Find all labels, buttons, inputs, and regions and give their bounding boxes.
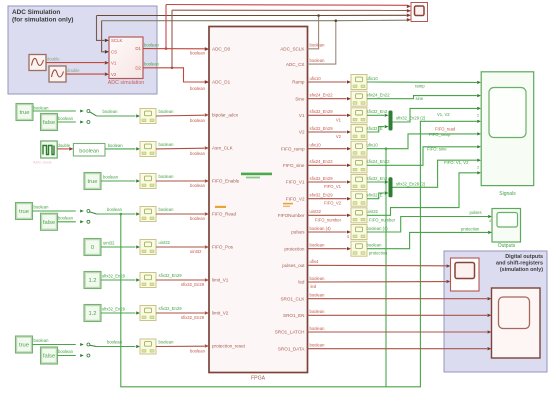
svg-text:sine: sine — [416, 96, 424, 101]
svg-text:boolean: boolean — [79, 148, 99, 154]
svg-text:V1: V1 — [336, 117, 342, 122]
constant true (row FIFO_Read) — [16, 203, 33, 220]
svg-text:ADC Simulation: ADC Simulation — [12, 9, 60, 16]
wire rate transition to FIFO_Pos — [156, 246, 205, 248]
rate transition right column (y=215.3) — [351, 208, 367, 223]
wire protection to Outputs — [367, 232, 488, 248]
svg-text:boolean: boolean — [103, 109, 119, 114]
svg-text:sfix24_En22: sfix24_En22 — [310, 159, 334, 164]
svg-text:boolean: boolean — [58, 216, 74, 221]
wire FPGA to rate transition (y=148.7) — [308, 148, 347, 150]
svg-text:D1: D1 — [135, 46, 141, 51]
wire true to switch — [33, 344, 76, 346]
svg-text:boolean: boolean — [310, 58, 326, 63]
svg-text:boolean: boolean — [190, 349, 206, 354]
svg-text:led: led — [311, 284, 317, 289]
rate transition right column (y=82) — [351, 75, 367, 90]
area box Digital outputs and shift-registers — [444, 251, 547, 372]
svg-text:Digital outputs: Digital outputs — [505, 254, 543, 260]
wire FPGA to rate transition (y=132) — [308, 131, 347, 133]
svg-text:uint32: uint32 — [103, 241, 115, 246]
wire FPGA to rate transition (y=198.7) — [308, 198, 347, 200]
svg-text:protection_reset: protection_reset — [212, 344, 246, 349]
constant true (row protection_reset) — [16, 336, 33, 353]
svg-text:boolean: boolean — [107, 207, 123, 212]
svg-text:ADC clock: ADC clock — [33, 160, 52, 165]
svg-text:FIFO_V1: FIFO_V1 — [286, 180, 305, 185]
svg-text:FIFO: V1, V2: FIFO: V1, V2 — [444, 160, 469, 165]
svg-text:boolean (4): boolean (4) — [367, 226, 389, 231]
wire 1.2 to rate transition — [101, 279, 135, 281]
svg-text:boolean: boolean — [159, 109, 175, 114]
wire switch to rate transition — [97, 115, 136, 117]
wire D2 branch to scope — [171, 67, 174, 70]
rate transition (row FIFO_Pos) — [140, 240, 156, 255]
wire FIFO_number to Signals — [367, 173, 477, 216]
constant 0 — [84, 239, 101, 256]
svg-text:boolean: boolean — [310, 326, 326, 331]
rate transition (row limit_V1) — [140, 273, 156, 288]
svg-text:ADC simulation: ADC simulation — [108, 80, 145, 86]
svg-text:V1, V2: V1, V2 — [437, 112, 450, 117]
wire SRO1_EN to shift register block — [308, 314, 488, 316]
svg-text:led: led — [298, 280, 305, 285]
wire SRO1_LATCH to shift register block — [308, 331, 488, 333]
svg-text:ufix10: ufix10 — [367, 143, 379, 148]
svg-text:FIFO_V1: FIFO_V1 — [324, 184, 342, 189]
svg-text:false: false — [43, 220, 55, 226]
svg-text:boolean: boolean — [34, 105, 50, 110]
wire D1 to ADC_D0 — [143, 48, 205, 50]
svg-text:uint32: uint32 — [159, 240, 171, 245]
svg-text:sfix32_En29: sfix32_En29 — [102, 307, 126, 312]
svg-text:boolean: boolean — [159, 340, 175, 345]
svg-text:FIFO_Read: FIFO_Read — [212, 212, 236, 217]
svg-text:boolean: boolean — [190, 151, 206, 156]
svg-text:boolean: boolean — [310, 309, 326, 314]
svg-text:2: 2 — [477, 114, 479, 118]
manual switch (row protection_reset) — [80, 343, 84, 346]
svg-text:boolean: boolean — [103, 175, 119, 180]
wire FIFO_sine to Signals — [367, 147, 477, 166]
svg-text:boolean (4): boolean (4) — [310, 226, 332, 231]
svg-text:bipolar_adcx: bipolar_adcx — [212, 113, 239, 118]
wire conversion to rate transition — [105, 148, 135, 150]
wire sine to Signals — [367, 96, 477, 99]
svg-text:boolean: boolean — [58, 116, 74, 121]
svg-text:sfix32_En29: sfix32_En29 — [310, 126, 334, 131]
svg-text:sfix32_En29: sfix32_En29 — [310, 193, 334, 198]
wire rate transition to limit_V2 — [156, 312, 205, 314]
svg-text:sfix32_En2: sfix32_En2 — [367, 109, 388, 114]
rate transition (row bipolar) — [140, 109, 156, 124]
svg-text:boolean: boolean — [159, 142, 175, 147]
wire mux to Signals V1 V2 — [393, 108, 477, 122]
svg-text:Asm_CLK: Asm_CLK — [212, 146, 234, 151]
svg-text:1.2: 1.2 — [88, 278, 96, 284]
rate transition (row protection_reset) — [140, 339, 156, 354]
svg-text:FIFO_read: FIFO_read — [435, 127, 456, 132]
svg-text:V1: V1 — [299, 113, 305, 118]
svg-text:FIFO_Enable: FIFO_Enable — [212, 179, 240, 184]
scope Signals — [481, 72, 534, 186]
wire switch to rate transition — [97, 346, 136, 348]
wire led to scope — [308, 281, 447, 283]
svg-text:sfix24_En22: sfix24_En22 — [367, 93, 391, 98]
svg-text:pulses: pulses — [470, 210, 482, 215]
FPGA left port arrows — [205, 47, 209, 51]
sine wave source 1 — [29, 55, 46, 71]
svg-text:uint32: uint32 — [190, 249, 202, 254]
constant 1.2 (limit_V1) — [84, 272, 101, 289]
wire true to rate transition — [101, 180, 135, 182]
svg-text:ufix4: ufix4 — [310, 259, 320, 264]
wire switch to rate transition with feedback junction — [97, 213, 136, 215]
svg-text:SRO1_LATCH: SRO1_LATCH — [275, 330, 305, 335]
mux V1 V2 — [367, 114, 384, 116]
svg-text:FIFO_number: FIFO_number — [315, 217, 342, 222]
svg-text:sfix32_En29 (2): sfix32_En29 (2) — [396, 181, 426, 186]
svg-text:boolean: boolean — [34, 338, 50, 343]
svg-text:and shift-registers: and shift-registers — [496, 261, 543, 267]
svg-text:Outputs: Outputs — [498, 243, 516, 249]
wire ramp to Signals — [367, 81, 477, 83]
wire pulses to Outputs — [367, 217, 488, 233]
svg-text:1.2: 1.2 — [88, 311, 96, 317]
area box ADC Simulation — [8, 6, 157, 94]
wire FPGA to rate transition (y=215.3) — [308, 214, 347, 216]
svg-text:sfix32_En29 (2): sfix32_En29 (2) — [396, 115, 426, 120]
svg-text:V2: V2 — [111, 72, 117, 77]
svg-text:2: 2 — [477, 165, 479, 169]
constant false (row protection_reset) — [41, 347, 58, 364]
wire rate transition to FIFO_Read — [156, 213, 205, 215]
svg-text:ADC_CS: ADC_CS — [286, 62, 305, 67]
svg-text:protection: protection — [461, 227, 480, 232]
svg-text:FIFONumber: FIFONumber — [278, 213, 305, 218]
rate transition right column (y=148.7) — [351, 141, 367, 156]
svg-text:boolean: boolean — [144, 43, 160, 48]
scope SPI signals (top right) — [407, 5, 411, 9]
svg-text:sfix32_En29: sfix32_En29 — [159, 273, 183, 278]
wire true to switch — [33, 110, 76, 112]
svg-text:ufix10: ufix10 — [310, 76, 322, 81]
svg-text:pulses_out: pulses_out — [282, 263, 305, 268]
svg-text:ufix10: ufix10 — [367, 76, 379, 81]
svg-text:double: double — [58, 143, 71, 148]
constant 1.2 (limit_V2) — [84, 305, 101, 322]
svg-text:sfix24_En22: sfix24_En22 — [310, 93, 334, 98]
wire ADC_CS net (FPGA to ADC sim + scope) — [308, 21, 336, 64]
wire ADC_SCLK net (FPGA to ADC sim + scope) — [308, 16, 319, 49]
svg-text:sfix32_En29: sfix32_En29 — [310, 109, 334, 114]
svg-text:true: true — [20, 110, 30, 116]
wire false to switch — [58, 121, 76, 123]
wire SRO1_DATA to shift register block — [308, 348, 488, 350]
rate transition right column (y=98.7) — [351, 91, 367, 106]
svg-text:true: true — [88, 179, 98, 185]
svg-text:boolean: boolean — [144, 62, 160, 67]
wire rate transition to limit_V1 — [156, 279, 205, 281]
svg-text:SCLK: SCLK — [111, 38, 123, 43]
svg-text:sfix32_En29: sfix32_En29 — [159, 306, 183, 311]
svg-text:ramp: ramp — [415, 84, 425, 89]
shift register subsystem block — [492, 288, 541, 358]
svg-text:SRO1_CLK: SRO1_CLK — [280, 296, 305, 301]
svg-text:true: true — [19, 209, 29, 215]
wire false to switch — [58, 355, 76, 357]
svg-text:FIFO_V2: FIFO_V2 — [324, 201, 342, 206]
svg-text:true: true — [19, 343, 29, 349]
wire pulse to conversion — [57, 148, 69, 150]
svg-text:V2: V2 — [336, 134, 342, 139]
svg-text:sfix24_En22: sfix24_En22 — [367, 159, 391, 164]
svg-text:FPGA: FPGA — [251, 376, 266, 382]
svg-text:FIFO_ramp: FIFO_ramp — [281, 146, 305, 151]
wire D1 branch to scope — [165, 47, 168, 50]
svg-text:FIFO_Pos: FIFO_Pos — [212, 245, 234, 250]
pulse generator — [41, 141, 58, 158]
rate transition right column (y=182) — [351, 175, 367, 190]
svg-text:false: false — [43, 354, 55, 360]
wire sine1 to V1 — [46, 62, 105, 64]
scope Outputs — [492, 209, 521, 243]
svg-text:pulses: pulses — [291, 230, 305, 235]
svg-text:sfix32_En29: sfix32_En29 — [102, 274, 126, 279]
wire FPGA to rate transition (y=98.7) — [308, 98, 347, 100]
rate transition right column (y=165.3) — [351, 158, 367, 173]
rate transition right column (y=198.7) — [351, 191, 367, 206]
svg-text:limit_V2: limit_V2 — [212, 311, 229, 316]
rate transition right column (y=132) — [351, 125, 367, 140]
constant true (row FIFO_Enable) — [84, 173, 101, 190]
wire D2 to ADC_D1 — [143, 68, 205, 82]
svg-text:boolean: boolean — [310, 293, 326, 298]
wire FPGA to rate transition (y=115.3) — [308, 114, 347, 116]
sine wave source 2 — [49, 66, 66, 82]
wire rate transition to FIFO_Enable — [156, 180, 205, 182]
svg-text:boolean: boolean — [190, 51, 206, 56]
svg-text:boolean: boolean — [310, 243, 326, 248]
svg-text:boolean: boolean — [34, 205, 50, 210]
svg-text:uint32: uint32 — [310, 209, 322, 214]
junction vertical x=386 — [385, 149, 387, 387]
svg-text:protection: protection — [369, 251, 388, 256]
svg-text:double: double — [47, 56, 60, 61]
svg-text:sfix32_En29: sfix32_En29 — [310, 176, 334, 181]
svg-text:limit_V1: limit_V1 — [212, 278, 229, 283]
annotation green dashes inside FPGA — [241, 173, 272, 176]
svg-text:FIFO_sine: FIFO_sine — [283, 163, 305, 168]
svg-text:double: double — [67, 68, 80, 73]
wire rate transition to Asm_CLK — [156, 147, 205, 150]
svg-text:boolean: boolean — [159, 174, 175, 179]
svg-text:sfix32_En2: sfix32_En2 — [367, 176, 388, 181]
wire false to switch — [58, 221, 76, 223]
svg-text:false: false — [43, 120, 55, 126]
wire FIFO_read feedback loop — [121, 121, 477, 387]
rate transition (row FIFO_Enable) — [140, 174, 156, 189]
svg-text:ADC_D1: ADC_D1 — [212, 80, 231, 85]
wire FPGA to rate transition (y=232) — [308, 231, 347, 233]
svg-text:sfix32_En29: sfix32_En29 — [181, 315, 205, 320]
wire pulses_out to scope — [308, 264, 447, 267]
svg-text:uint32: uint32 — [367, 209, 379, 214]
rate transition right column (y=115.3) — [351, 108, 367, 123]
svg-text:Signals: Signals — [499, 191, 516, 197]
svg-text:D2: D2 — [135, 66, 141, 71]
wire 1.2 to rate transition — [101, 312, 135, 314]
svg-text:4: 4 — [489, 219, 491, 223]
svg-text:Ramp: Ramp — [292, 80, 305, 85]
wire FPGA to rate transition (y=182) — [308, 181, 347, 183]
constant false (row FIFO_Read) — [41, 213, 58, 230]
annotation orange dash above FIFO_Read — [215, 206, 226, 208]
wire FPGA to rate transition (y=248.7) — [308, 248, 347, 250]
svg-text:protection: protection — [284, 246, 305, 251]
svg-text:ufix10: ufix10 — [310, 143, 322, 148]
wire rate transition to protection_reset — [156, 345, 205, 347]
svg-text:FIFO: sine: FIFO: sine — [427, 146, 447, 151]
svg-text:ADC_D0: ADC_D0 — [212, 47, 231, 52]
svg-text:FIFO_ramp: FIFO_ramp — [429, 132, 451, 137]
svg-text:boolean: boolean — [367, 243, 383, 248]
constant true (row bipolar) — [16, 104, 33, 121]
wire sine2 to V2 — [66, 73, 105, 75]
manual switch (row FIFO_Read) — [80, 209, 84, 212]
svg-text:boolean: boolean — [190, 183, 206, 188]
wire FIFO_ramp to Signals — [367, 134, 477, 149]
ADC simulation block — [109, 37, 143, 79]
scope digital outputs (in sim box) — [451, 258, 480, 291]
svg-text:boolean: boolean — [108, 143, 124, 148]
constant false (row bipolar) — [41, 114, 58, 131]
svg-text:0: 0 — [91, 245, 94, 251]
wire rate transition to bipolar_adcx — [156, 114, 205, 117]
svg-text:SRO1_DATA: SRO1_DATA — [278, 346, 306, 351]
rate transition (row Asm_CLK) — [140, 142, 156, 157]
rate transition (row limit_V2) — [140, 306, 156, 321]
svg-text:sfix32_En29: sfix32_En29 — [181, 282, 205, 287]
wire 0 to rate transition — [101, 246, 135, 248]
svg-text:CS: CS — [111, 50, 117, 55]
svg-text:boolean: boolean — [159, 207, 175, 212]
wire true to switch — [33, 210, 76, 212]
svg-text:Sine: Sine — [295, 96, 305, 101]
svg-text:V1: V1 — [111, 61, 117, 66]
wire FPGA to rate transition (y=82) — [308, 81, 347, 83]
svg-text:boolean: boolean — [310, 276, 326, 281]
svg-text:(simulation only): (simulation only) — [500, 267, 543, 273]
rate transition (row FIFO_Read) — [140, 207, 156, 222]
svg-text:FIFO_V2: FIFO_V2 — [286, 196, 305, 201]
svg-text:boolean: boolean — [190, 86, 206, 91]
data type conversion boolean — [73, 144, 105, 157]
svg-text:(for simulation only): (for simulation only) — [12, 17, 73, 24]
wire mux to Signals FIFO V1 V2 — [393, 160, 477, 187]
manual switch (row bipolar) — [80, 109, 84, 112]
ADC simulation input arrows — [105, 39, 109, 43]
rate transition right column (y=248.7) — [351, 241, 367, 256]
FPGA subsystem block — [209, 27, 308, 373]
wire FPGA to rate transition (y=165.3) — [308, 164, 347, 166]
svg-text:FIFO_number: FIFO_number — [369, 217, 396, 222]
mux FIFO_V1 FIFO_V2 — [367, 181, 384, 183]
svg-text:boolean: boolean — [310, 343, 326, 348]
annotation orange dashes near FIFONumber wire — [283, 203, 293, 205]
svg-text:boolean: boolean — [190, 216, 206, 221]
svg-text:boolean: boolean — [107, 340, 123, 345]
svg-text:ADC_SCLK: ADC_SCLK — [280, 47, 305, 52]
svg-text:boolean: boolean — [310, 43, 326, 48]
svg-text:boolean: boolean — [58, 349, 74, 354]
svg-text:V2: V2 — [299, 130, 305, 135]
svg-text:boolean: boolean — [190, 118, 206, 123]
svg-text:SRO1_EN: SRO1_EN — [283, 313, 304, 318]
rate transition right column (y=232) — [351, 225, 367, 240]
wire SRO1_CLK to shift register block — [308, 298, 488, 300]
